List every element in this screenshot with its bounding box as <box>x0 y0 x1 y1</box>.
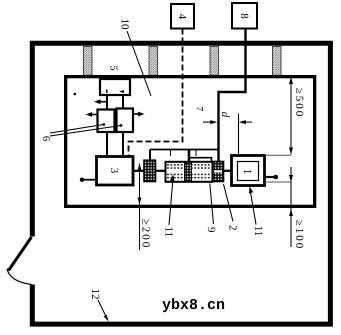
leader 6 to right valve <box>50 126 121 137</box>
label 12 with leader <box>89 289 109 322</box>
svg-text:3: 3 <box>108 168 120 174</box>
riser valve right to box 3 <box>122 132 124 157</box>
riser box5 to valve left <box>106 95 108 110</box>
label 11 left with leader <box>163 175 175 238</box>
svg-text:1: 1 <box>241 169 253 175</box>
wall sleeve strip A <box>84 47 93 76</box>
small stub 2 <box>195 150 197 157</box>
svg-text:≥200: ≥200 <box>139 219 151 250</box>
valve left pin arrow <box>90 114 98 116</box>
dimension ge200 <box>138 164 152 251</box>
svg-text:11: 11 <box>252 226 264 237</box>
component A (flame arrester) <box>144 160 156 181</box>
svg-text:12: 12 <box>89 289 101 300</box>
door swing arc <box>7 269 32 285</box>
wall sleeve strip C <box>210 47 219 76</box>
svg-text:9: 9 <box>205 227 217 233</box>
svg-text:4: 4 <box>176 14 188 20</box>
main pipe box3 to A <box>133 170 145 172</box>
box 1 right stub with dot <box>265 176 275 178</box>
step pipe over filter <box>189 158 212 163</box>
small stub 1 <box>170 150 172 157</box>
box 3 <box>97 157 134 186</box>
dimension ge500 <box>289 77 305 155</box>
extension line box1 bottom <box>265 181 292 183</box>
label 9 with leader <box>205 184 217 234</box>
svg-text:2: 2 <box>227 225 239 231</box>
branch pipe <box>150 149 219 151</box>
drop to filter mid cell <box>188 150 191 163</box>
valve 6 right <box>117 109 134 133</box>
valve 6 left <box>98 110 115 133</box>
door leaf <box>9 237 32 271</box>
pipe from box 8 <box>219 29 246 163</box>
riser box5 to valve right <box>122 95 124 109</box>
svg-text:10: 10 <box>119 19 131 31</box>
wall sleeve strip B <box>149 47 158 76</box>
box 1 (appliance) <box>232 156 265 186</box>
inner room wall <box>66 77 315 207</box>
label 11 right with leader <box>249 187 264 237</box>
svg-text:6: 6 <box>40 136 51 141</box>
pipe D to box 1 <box>224 170 233 172</box>
dimension ge100 <box>289 167 305 250</box>
svg-text:7: 7 <box>194 106 205 111</box>
svg-text:ybx8.cn: ybx8.cn <box>162 297 225 314</box>
component D <box>213 162 224 182</box>
svg-text:≥500: ≥500 <box>293 88 305 119</box>
component B assembly <box>166 162 213 182</box>
door opening gap <box>28 237 37 285</box>
valve right pin arrow <box>133 113 140 115</box>
dimension d <box>203 112 252 156</box>
svg-text:5: 5 <box>108 65 119 70</box>
wall sleeve strip D <box>273 47 282 76</box>
outer wall <box>32 43 330 324</box>
leader 6 to left valve <box>50 125 104 134</box>
extension line box1 top <box>265 154 292 156</box>
svg-text:d: d <box>219 112 231 118</box>
svg-text:11: 11 <box>163 227 175 238</box>
box 3 left stub with dot <box>84 179 97 181</box>
svg-text:≥100: ≥100 <box>293 220 305 251</box>
drop to component A <box>149 150 151 161</box>
pipe A to B <box>156 170 167 172</box>
box 4 <box>171 4 194 29</box>
label 10 with leader <box>119 19 152 97</box>
svg-text:8: 8 <box>238 13 250 19</box>
box 8 <box>232 3 257 29</box>
label 2 with leader <box>224 184 239 231</box>
riser valve left to box 3 <box>106 132 108 157</box>
junction dot on wall <box>74 93 77 96</box>
box 5 <box>100 79 130 95</box>
pipe from box 4 (dashed) <box>129 29 183 158</box>
vent line with arrow <box>98 101 107 103</box>
